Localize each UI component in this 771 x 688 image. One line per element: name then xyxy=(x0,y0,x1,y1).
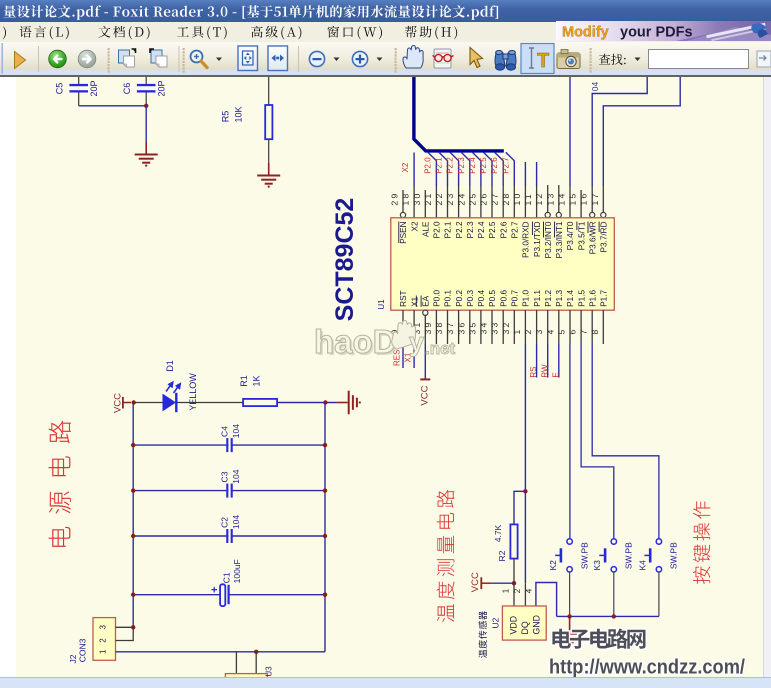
pin 27 top lead xyxy=(490,185,504,218)
overline RD xyxy=(598,222,600,233)
pin 10 top lead xyxy=(512,185,526,218)
junction K2 rail xyxy=(567,614,571,618)
pin 35 bottom lead xyxy=(467,310,481,344)
switch K2 SW.PB xyxy=(548,539,589,617)
junction J2 pin3 xyxy=(131,625,135,629)
connector U3 (bottom, cut) xyxy=(225,666,273,686)
resistor R5 10K xyxy=(221,105,273,139)
sensor U2 DS18B20 xyxy=(490,606,546,640)
pin 9 bottom lead xyxy=(390,310,404,344)
wire P1.4 to K2 xyxy=(569,344,571,539)
pin 32 bottom lead xyxy=(501,310,515,344)
wire J2 pin2 xyxy=(116,627,134,640)
junction P1.0/R2 xyxy=(523,489,527,493)
label 温度传感器 xyxy=(479,611,487,658)
pin 39 bottom lead xyxy=(423,310,437,344)
bus P2 xyxy=(414,77,504,151)
wire DQ lead xyxy=(524,491,526,583)
wire VCC to LED xyxy=(136,402,163,404)
power VCC (U2) xyxy=(470,572,491,592)
ground (R5) xyxy=(257,163,280,188)
LED D1 YELLOW xyxy=(163,360,199,412)
pin 16 top lead xyxy=(579,185,595,218)
pin 12 top lead xyxy=(534,185,550,218)
junction K3 rail xyxy=(612,614,616,618)
wire P2.1 xyxy=(439,152,448,185)
wire P2.3 xyxy=(461,152,470,185)
pin 33 bottom lead xyxy=(490,310,504,344)
wire GND route xyxy=(536,583,557,617)
power VCC (LED rail) xyxy=(112,393,131,413)
underline X1 xyxy=(415,296,417,307)
wire R2 to VDD xyxy=(513,559,515,584)
pin 22 top lead xyxy=(434,185,448,218)
overline INT0 xyxy=(543,222,545,238)
switch K4 SW.PB xyxy=(637,539,678,617)
wire R2 branch xyxy=(514,491,525,524)
overline EA xyxy=(420,296,422,307)
pin 38 bottom lead xyxy=(434,310,448,344)
pin 28 top lead xyxy=(501,185,515,218)
wire P2.5 xyxy=(483,152,492,185)
wire P1.1 stub xyxy=(536,344,538,378)
wire P2.4 xyxy=(472,152,481,185)
pin 7 bottom lead xyxy=(579,310,593,344)
wire R1 to ground xyxy=(277,402,337,404)
wire P1.3 stub xyxy=(558,344,560,378)
wire P2.6 xyxy=(495,152,504,185)
wire LED to R1 xyxy=(178,402,244,404)
pin 3 bottom lead xyxy=(534,310,548,344)
pin 6 bottom lead xyxy=(568,310,582,344)
wire rail C1 xyxy=(133,594,325,596)
wire X1 stub xyxy=(413,344,415,368)
junction rail C3 right xyxy=(323,488,327,492)
overline PSEN xyxy=(398,222,400,244)
wire P1.5 to K3 xyxy=(581,344,614,539)
pin 15 top lead xyxy=(568,190,582,218)
ground (R1) xyxy=(337,391,361,415)
pin 2 bottom lead xyxy=(523,310,537,344)
junction R1/rail xyxy=(323,400,327,404)
wire C5-C6 bottom xyxy=(79,105,147,107)
pin 18 top lead xyxy=(401,185,415,218)
wire R5 top xyxy=(268,77,270,105)
wire rail C3 xyxy=(133,490,325,492)
capacitor C3 104 xyxy=(219,469,241,498)
ground (keys) xyxy=(558,616,581,646)
resistor R1 1K xyxy=(239,375,277,406)
junction rail C1 left xyxy=(131,593,135,597)
svg-text:http://www.cndzz.com/: http://www.cndzz.com/ xyxy=(549,657,745,679)
watermark haoDzy.net xyxy=(314,320,456,362)
wire P3.1/TXD stub xyxy=(536,162,538,186)
overline T1 xyxy=(576,222,578,231)
pin 29 top lead xyxy=(390,190,406,218)
wire right rail xyxy=(324,403,326,652)
junction VCC rail xyxy=(132,400,136,404)
pin 36 bottom lead xyxy=(456,310,470,344)
junction rail C1 right xyxy=(323,593,327,597)
capacitor C4 104 xyxy=(219,424,241,453)
capacitor C1 100uF xyxy=(211,559,242,606)
wire key ground rail xyxy=(557,615,659,617)
wire P1.6 to K4 xyxy=(592,344,659,539)
ground (C5/C6) xyxy=(135,142,158,167)
pin 5 bottom lead xyxy=(557,310,571,344)
wire to ground xyxy=(145,106,147,142)
wire RST stub xyxy=(402,344,404,368)
pin 37 bottom lead xyxy=(445,310,459,344)
wire U3 lead2 xyxy=(255,652,257,674)
wire P3.7/RD route xyxy=(603,77,680,186)
pin 4 bottom lead xyxy=(545,310,559,344)
label 按键操作 xyxy=(693,501,710,584)
pin 14 top lead xyxy=(557,185,571,218)
wire VCC to VDD xyxy=(491,582,514,584)
wire U3 lead1 xyxy=(235,652,237,674)
junction rail C3 left xyxy=(131,488,135,492)
pin 26 top lead xyxy=(479,185,493,218)
wire VDD lead xyxy=(513,583,515,606)
pin 34 bottom lead xyxy=(479,310,493,344)
power VCC (EA) xyxy=(419,379,430,405)
label 电源电路 xyxy=(49,421,71,547)
op-amp U1 SCT89C52 body xyxy=(391,218,615,310)
wire R5 bottom xyxy=(268,139,270,163)
capacitor C6 20P xyxy=(122,77,167,106)
wire P2.7 xyxy=(506,152,515,185)
resistor R2 4.7K xyxy=(493,524,517,561)
wire X2 xyxy=(413,153,415,186)
pin 21 top lead xyxy=(423,185,437,218)
capacitor C5 20P xyxy=(55,77,99,106)
wire P2.2 xyxy=(450,152,459,185)
wire EA to VCC xyxy=(424,344,426,379)
DQ pin stub xyxy=(524,583,526,606)
pin 17 top lead xyxy=(590,185,606,218)
wire P2.0 xyxy=(428,152,437,185)
label 温度测量电路 xyxy=(437,490,455,622)
overline WR xyxy=(587,222,589,234)
capacitor C2 104 xyxy=(219,515,241,544)
pin 8 bottom lead xyxy=(590,310,604,344)
overline TXD xyxy=(531,222,533,236)
wire P3.4/T0 to top xyxy=(569,77,571,186)
wire P3.6/WR route xyxy=(592,77,647,186)
junction bottom wire xyxy=(254,650,258,654)
pin 19 bottom lead xyxy=(401,310,415,344)
wire P1.0 to DQ xyxy=(524,344,526,491)
pin 25 top lead xyxy=(467,185,481,218)
junction rail C2 left xyxy=(131,534,135,538)
wire rail C4 xyxy=(133,444,325,446)
wire P3.0/RXD stub xyxy=(524,162,526,186)
pin 13 top lead xyxy=(545,185,561,218)
wire P1.2 stub xyxy=(547,344,549,378)
pin 23 top lead xyxy=(445,185,459,218)
wire J2 pin3 xyxy=(116,626,134,628)
overline INT1 xyxy=(554,222,556,238)
wire rail C2 xyxy=(133,535,325,537)
junction C6 xyxy=(144,104,148,108)
connector J2 CON3 xyxy=(68,618,116,664)
wire left rail xyxy=(132,403,134,628)
pin 31 bottom lead xyxy=(412,310,428,344)
switch K3 SW.PB xyxy=(592,539,633,617)
pin 1 bottom lead xyxy=(512,310,526,344)
wire J2 pin1 bottom xyxy=(116,651,326,653)
pin 11 top lead xyxy=(523,185,537,218)
pin 24 top lead xyxy=(456,185,470,218)
junction rail C4 right xyxy=(323,443,327,447)
pin 30 top lead xyxy=(412,190,426,218)
junction rail C2 right xyxy=(323,534,327,538)
watermark 电子电路网 xyxy=(552,629,645,649)
junction rail C4 left xyxy=(131,443,135,447)
junction VDD xyxy=(512,581,516,585)
